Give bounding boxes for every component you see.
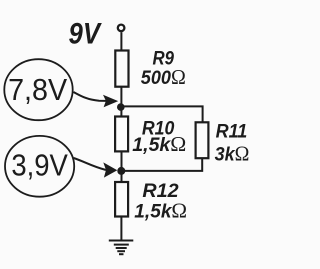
wire: R10 bottom through node B to R12 top bbox=[121, 151, 123, 183]
leader arrow: bubble 7,8V to node A bbox=[74, 92, 107, 101]
svg-text:R11: R11 bbox=[216, 121, 248, 142]
wire: R12 bottom to ground bbox=[120, 216, 122, 240]
resistor R12 bbox=[115, 182, 128, 217]
svg-text:9V: 9V bbox=[69, 18, 102, 51]
svg-text:500Ω: 500Ω bbox=[141, 65, 186, 89]
svg-text:3kΩ: 3kΩ bbox=[215, 142, 250, 166]
callout bubble: node B voltage 3,9V bbox=[5, 136, 74, 197]
wire: R9 bottom through node A to R10 top bbox=[120, 87, 122, 118]
node A junction dot bbox=[117, 103, 125, 111]
resistor R10 bbox=[115, 117, 128, 152]
svg-text:1,5kΩ: 1,5kΩ bbox=[134, 198, 187, 222]
svg-text:1,5kΩ: 1,5kΩ bbox=[132, 132, 186, 156]
resistor R11 bbox=[196, 122, 209, 158]
node B junction dot bbox=[117, 167, 125, 175]
wire: node A to R11 top bbox=[121, 106, 203, 122]
ground bbox=[109, 241, 134, 255]
node: 9V supply terminal (open circle) bbox=[118, 25, 125, 32]
svg-text:7,8V: 7,8V bbox=[8, 72, 67, 107]
resistor R9 bbox=[115, 51, 128, 87]
wire: R11 bottom to node B bbox=[121, 158, 202, 171]
leader arrow: bubble 3,9V to node B bbox=[74, 158, 107, 170]
callout bubble: node A voltage 7,8V bbox=[4, 59, 72, 120]
svg-text:3,9V: 3,9V bbox=[11, 148, 68, 183]
wire: terminal to R9 top bbox=[120, 32, 122, 51]
